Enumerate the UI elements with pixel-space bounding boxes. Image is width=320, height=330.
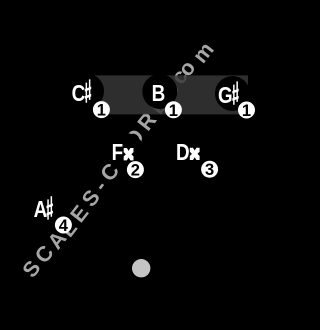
svg-text:3: 3 (205, 161, 214, 179)
finger badge 1 on B (165, 101, 182, 120)
label C# letter (72, 82, 86, 107)
sharp sign of G# (232, 81, 238, 104)
label B letter (152, 82, 166, 107)
svg-text:1: 1 (97, 102, 106, 120)
note disc B (142, 74, 177, 109)
label G# letter (218, 83, 233, 108)
svg-text:G: G (218, 83, 233, 108)
double sharp of Dx (190, 148, 200, 160)
svg-text:B: B (152, 82, 166, 107)
sharp sign of A# (47, 196, 53, 219)
label Fx letter (112, 140, 124, 165)
finger badge 1 on G# (238, 102, 255, 121)
note disc Dx (175, 133, 210, 168)
svg-text:A: A (34, 198, 48, 223)
open string dot (132, 259, 150, 277)
svg-text:2: 2 (131, 162, 140, 180)
svg-text:1: 1 (242, 102, 251, 120)
label Dx letter (176, 140, 190, 165)
note disc C# (69, 74, 104, 109)
finger badge 3 on Dx (201, 161, 218, 180)
note disc G# (215, 76, 250, 111)
barre bar fret 1 (95, 75, 248, 114)
sharp sign of C# (85, 79, 91, 102)
svg-text:4: 4 (59, 217, 69, 235)
note disc Fx (109, 133, 144, 168)
svg-text:D: D (176, 140, 190, 165)
double sharp of Fx (124, 148, 134, 160)
svg-text:C: C (72, 82, 86, 107)
note disc A# (30, 190, 65, 225)
label A# letter (34, 198, 48, 223)
svg-text:1: 1 (169, 102, 178, 120)
finger badge 2 on Fx (127, 161, 144, 180)
svg-text:F: F (112, 140, 124, 165)
finger badge 1 on C# (93, 101, 110, 120)
finger badge 4 on A# (55, 217, 72, 236)
